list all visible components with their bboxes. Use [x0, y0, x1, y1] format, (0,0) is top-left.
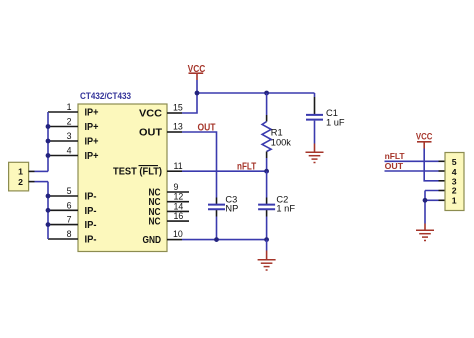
node junction pin7: [46, 222, 51, 227]
svg-text:R1: R1: [271, 127, 283, 137]
pin 10 GND: [143, 229, 183, 246]
wire OUT net: [182, 132, 217, 198]
svg-text:10: 10: [173, 229, 183, 239]
svg-text:13: 13: [173, 122, 183, 132]
resistor R1: [262, 93, 291, 171]
node junction pin2: [46, 124, 51, 129]
svg-text:16: 16: [174, 211, 184, 221]
pin 5 IP-: [48, 186, 97, 203]
node R1 top junction: [264, 91, 269, 96]
capacitor C3: [208, 195, 238, 240]
connector CON2 (right): [445, 153, 464, 211]
wire OUT to pin4: [385, 170, 439, 172]
svg-text:GND: GND: [143, 235, 162, 246]
pin 4 IP+: [48, 146, 99, 163]
node C2 gnd junction: [264, 237, 269, 242]
VCC power symbol (top): [188, 64, 206, 80]
wire nFLT to pin5: [385, 160, 439, 162]
svg-text:CT432/CT433: CT432/CT433: [80, 91, 131, 102]
svg-text:IP-: IP-: [85, 206, 97, 217]
svg-text:NC: NC: [149, 217, 161, 228]
wire IP+ bus vertical: [47, 112, 49, 171]
wire GND rail: [182, 239, 267, 241]
svg-text:3: 3: [67, 131, 72, 141]
svg-text:IP+: IP+: [85, 108, 99, 119]
svg-text:OUT: OUT: [198, 122, 216, 133]
svg-text:2: 2: [67, 117, 72, 127]
svg-text:4: 4: [67, 146, 72, 156]
connector CON2 pin stubs: [439, 161, 446, 200]
svg-text:nFLT: nFLT: [385, 151, 406, 161]
connector CON1 (left): [9, 162, 29, 191]
svg-text:TEST (FLT): TEST (FLT): [113, 166, 162, 177]
svg-text:100k: 100k: [271, 138, 292, 148]
pin 12 NC: [149, 192, 190, 209]
node junction pin6: [46, 208, 51, 213]
svg-text:12: 12: [174, 192, 184, 202]
svg-text:IP-: IP-: [85, 235, 97, 246]
wire connector pin2 to IP- bus: [35, 181, 49, 183]
capacitor C1: [306, 93, 345, 144]
svg-text:5: 5: [452, 157, 457, 167]
svg-text:OUT: OUT: [139, 128, 162, 139]
svg-text:7: 7: [67, 215, 72, 225]
node junction pin5: [46, 194, 51, 199]
ground under C1: [306, 144, 324, 163]
pin 9 NC: [149, 182, 190, 199]
svg-text:5: 5: [67, 186, 72, 196]
svg-text:1 nF: 1 nF: [276, 204, 295, 214]
svg-text:4: 4: [452, 167, 457, 177]
svg-text:14: 14: [174, 201, 184, 211]
pin 3 IP+: [48, 131, 99, 148]
pin 2 IP+: [48, 117, 99, 134]
node junction pin3: [46, 139, 51, 144]
pin 6 IP-: [48, 200, 97, 217]
wire IP- bus vertical: [47, 182, 49, 239]
ground (bottom): [258, 251, 276, 271]
connector CON1 pin stubs: [29, 171, 35, 181]
wire VCC rail: [197, 92, 315, 94]
node pin1 junction: [423, 198, 428, 203]
node C3 gnd junction: [214, 237, 219, 242]
svg-text:2: 2: [18, 177, 23, 187]
svg-text:8: 8: [67, 229, 72, 239]
svg-text:IP+: IP+: [85, 122, 99, 133]
wire pin2 down: [425, 191, 439, 224]
wire nFLT net: [182, 170, 267, 172]
pin 14 NC: [149, 201, 190, 218]
pin 15 VCC: [139, 103, 183, 120]
svg-text:IP+: IP+: [85, 151, 99, 162]
wire VCC to pin3: [424, 149, 438, 181]
pin 11 TEST (FLT): [113, 161, 183, 177]
svg-text:1: 1: [18, 167, 23, 177]
svg-text:1: 1: [67, 102, 72, 112]
wire pin15 to VCC node: [182, 93, 197, 113]
node VCC junction: [195, 91, 200, 96]
svg-text:IP+: IP+: [85, 137, 99, 148]
svg-text:nFLT: nFLT: [237, 162, 256, 173]
svg-text:OUT: OUT: [385, 161, 404, 171]
svg-text:VCC: VCC: [416, 132, 433, 142]
svg-text:1 uF: 1 uF: [326, 117, 345, 127]
svg-text:9: 9: [174, 182, 179, 192]
IC CT432/CT433 body: [78, 91, 167, 252]
svg-text:6: 6: [67, 200, 72, 210]
capacitor C2: [258, 171, 295, 239]
svg-text:NP: NP: [225, 204, 238, 214]
svg-text:VCC: VCC: [139, 109, 162, 120]
wire connector pin1 to IP+ bus: [35, 170, 49, 172]
pin 7 IP-: [48, 215, 97, 232]
pin 16 NC: [149, 211, 190, 228]
ground (right): [416, 224, 434, 241]
svg-text:2: 2: [452, 186, 457, 196]
pin 1 IP+: [48, 102, 99, 119]
wire pin1: [425, 199, 439, 201]
svg-text:15: 15: [173, 103, 183, 113]
pin 8 IP-: [48, 229, 97, 246]
wire VCC stub to rail: [196, 80, 198, 93]
svg-text:11: 11: [174, 161, 183, 171]
node junction pin4: [46, 153, 51, 158]
wire gnd stub: [266, 240, 268, 251]
node nFLT junction: [264, 169, 269, 174]
pin 13 OUT: [139, 122, 183, 139]
svg-text:IP-: IP-: [85, 192, 97, 203]
svg-text:IP-: IP-: [85, 220, 97, 231]
svg-text:1: 1: [452, 195, 457, 205]
VCC power symbol (right): [416, 132, 433, 149]
